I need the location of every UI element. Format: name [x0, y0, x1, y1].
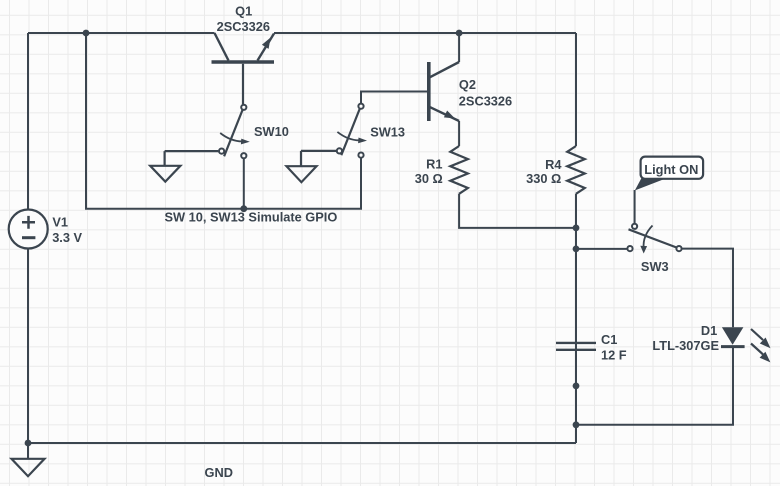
svg-text:D1: D1: [701, 323, 717, 338]
svg-text:2SC3326: 2SC3326: [459, 93, 512, 108]
svg-text:SW3: SW3: [641, 259, 669, 274]
svg-text:3.3 V: 3.3 V: [52, 230, 82, 245]
svg-text:12 F: 12 F: [601, 348, 627, 363]
svg-text:2SC3326: 2SC3326: [217, 19, 270, 34]
svg-text:GND: GND: [205, 465, 233, 480]
svg-text:SW 10, SW13 Simulate GPIO: SW 10, SW13 Simulate GPIO: [165, 210, 338, 225]
svg-text:SW10: SW10: [254, 124, 289, 139]
svg-text:330 Ω: 330 Ω: [526, 171, 561, 186]
svg-text:R4: R4: [545, 157, 562, 172]
svg-text:C1: C1: [601, 332, 617, 347]
svg-text:Light ON: Light ON: [644, 162, 698, 177]
svg-text:SW13: SW13: [370, 125, 405, 140]
svg-text:V1: V1: [52, 214, 68, 229]
svg-text:R1: R1: [426, 157, 442, 172]
svg-text:Q2: Q2: [459, 77, 476, 92]
svg-text:Q1: Q1: [235, 4, 252, 19]
svg-text:30 Ω: 30 Ω: [415, 171, 443, 186]
svg-text:LTL-307GE: LTL-307GE: [652, 338, 719, 353]
